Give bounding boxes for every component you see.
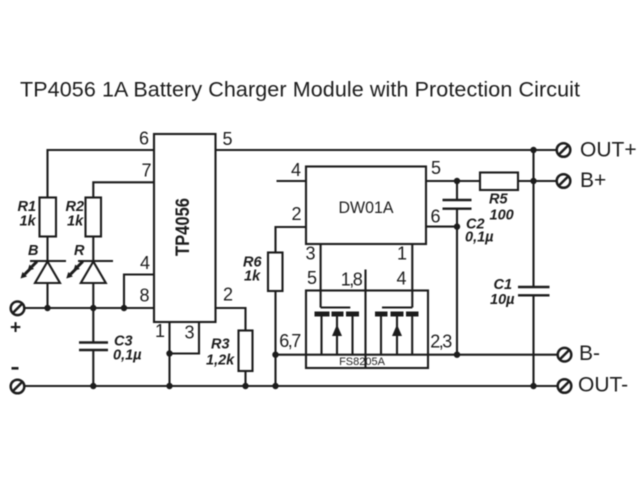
svg-text:3: 3 <box>305 244 315 264</box>
junction pin4 / + rail <box>121 305 127 311</box>
svg-text:1k: 1k <box>20 214 37 230</box>
svg-text:C1: C1 <box>494 277 513 293</box>
svg-text:0,1µ: 0,1µ <box>465 230 494 246</box>
wire pin6 TP4056 to R1 top <box>48 150 155 198</box>
svg-text:6: 6 <box>139 129 149 149</box>
wire pin2 TP4056 to R3 <box>216 308 246 331</box>
wire pin4 TP4056 step <box>124 275 154 309</box>
wire R5 to B+ terminal <box>518 180 557 182</box>
wire pin2 DW01A to R6 <box>276 227 307 253</box>
svg-text:FS8205A: FS8205A <box>339 356 386 368</box>
LED R light arrows <box>78 262 83 267</box>
svg-text:6,7: 6,7 <box>279 331 301 351</box>
svg-text:OUT+: OUT+ <box>580 139 637 162</box>
svg-text:4: 4 <box>291 160 301 180</box>
svg-text:2: 2 <box>291 204 301 224</box>
svg-text:R5: R5 <box>489 192 508 208</box>
wire pin3 DW01A to FS8205A gate 5 <box>320 244 322 308</box>
wire R6 bottom to B- line and OUT- rail <box>274 291 276 386</box>
svg-text:DW01A: DW01A <box>339 198 395 217</box>
terminal B+ <box>557 174 571 188</box>
svg-text:+: + <box>10 318 21 339</box>
junction C3 / OUT- rail <box>90 383 96 389</box>
svg-text:0,1µ: 0,1µ <box>113 348 142 364</box>
svg-text:5: 5 <box>431 158 441 178</box>
svg-text:B-: B- <box>579 342 600 365</box>
svg-text:1k: 1k <box>244 269 261 285</box>
wire pin4 DW01A stub <box>277 180 307 182</box>
svg-text:2: 2 <box>223 285 233 305</box>
junction C2 / pin5 wire <box>454 178 460 184</box>
wire TP4056 pin5 to OUT+ <box>216 149 557 151</box>
wire pin6 DW01A to C2 <box>426 226 457 228</box>
IC Q1 FS8205A body <box>306 291 428 369</box>
svg-text:100: 100 <box>490 208 514 224</box>
junction OUT+ rail / B+ branch <box>530 147 536 153</box>
capacitor C2 <box>443 181 472 227</box>
svg-text:1: 1 <box>397 244 407 264</box>
wires TP4056 pins 1,3 tie <box>170 322 200 386</box>
svg-text:1,2k: 1,2k <box>206 353 235 369</box>
terminal + input <box>11 302 25 316</box>
resistor R2 <box>86 198 102 237</box>
LED B (blue) <box>21 261 67 308</box>
svg-text:1,8: 1,8 <box>341 270 363 290</box>
svg-text:4: 4 <box>140 253 150 273</box>
terminal - input <box>11 380 25 394</box>
LED R (red) <box>66 261 113 308</box>
capacitor C3 <box>79 308 108 386</box>
svg-text:4: 4 <box>396 269 406 289</box>
svg-text:2,3: 2,3 <box>430 332 452 352</box>
svg-text:5: 5 <box>307 268 317 288</box>
junction R6 / OUT- rail <box>272 383 278 389</box>
wire OUT+ rail down to B+ and C1 <box>532 150 534 287</box>
svg-text:R3: R3 <box>211 337 230 353</box>
LED B light arrows <box>32 262 37 267</box>
wire C2/pin6 down to B- line <box>456 227 458 355</box>
svg-text:3: 3 <box>184 323 194 343</box>
mosfet Q1a (left) <box>315 308 360 355</box>
svg-text:TP4056: TP4056 <box>173 198 194 256</box>
svg-text:8: 8 <box>139 286 149 306</box>
wire pin7 TP4056 to R2 top <box>93 182 154 197</box>
wire pin1 DW01A to FS8205A gate 4 <box>411 244 413 308</box>
svg-text:10µ: 10µ <box>490 292 515 308</box>
svg-text:TP4056 1A Battery Charger Modu: TP4056 1A Battery Charger Module with Pr… <box>20 78 580 102</box>
junction C1 / OUT- rail <box>530 383 536 389</box>
resistor R1 <box>40 198 57 237</box>
junction pins 1,3 <box>166 350 172 356</box>
IC U2 DW01A body <box>306 167 426 245</box>
wire R2 bottom to LED R <box>92 237 94 262</box>
svg-text:1k: 1k <box>67 214 84 230</box>
junction LED B / + rail <box>44 305 50 311</box>
mosfet Q1b (right) <box>375 308 419 355</box>
junction pins1,3 / OUT- rail <box>166 383 172 389</box>
svg-text:B+: B+ <box>580 169 606 192</box>
label - (minus) <box>12 367 19 370</box>
svg-text:7: 7 <box>141 161 151 181</box>
resistor R3 <box>239 331 253 372</box>
wire R1 bottom to LED B <box>46 237 48 262</box>
capacitor C1 <box>518 287 550 386</box>
junction R3 / OUT- rail <box>242 383 248 389</box>
wire pin5 DW01A to R5 <box>426 180 480 182</box>
terminal OUT+ <box>557 143 571 157</box>
resistor R5 <box>480 173 518 191</box>
junction C2 / pin6 wire <box>454 223 460 229</box>
junction B+ wire / C1 branch <box>530 178 536 184</box>
wire OUT- rail <box>24 385 557 387</box>
svg-text:6: 6 <box>430 207 440 227</box>
terminal B- <box>558 348 572 362</box>
svg-text:B: B <box>28 243 38 259</box>
svg-text:5: 5 <box>222 129 232 149</box>
junction LED R / + rail <box>90 305 96 311</box>
svg-text:R: R <box>74 243 85 259</box>
wire R3 bottom to OUT- rail <box>244 371 246 386</box>
svg-text:OUT-: OUT- <box>578 374 628 397</box>
junction C2 branch / B- line <box>454 352 460 358</box>
resistor R6 <box>268 253 283 292</box>
wire B- line <box>276 354 558 356</box>
IC U1 TP4056 body <box>154 134 216 322</box>
wire + rail to TP4056 pin 8 <box>24 307 154 309</box>
terminal OUT- <box>558 379 572 393</box>
svg-text:1: 1 <box>155 321 165 341</box>
wire FS8205A pins 1,8 stub <box>364 270 366 369</box>
junction R6 / B- line <box>272 352 278 358</box>
